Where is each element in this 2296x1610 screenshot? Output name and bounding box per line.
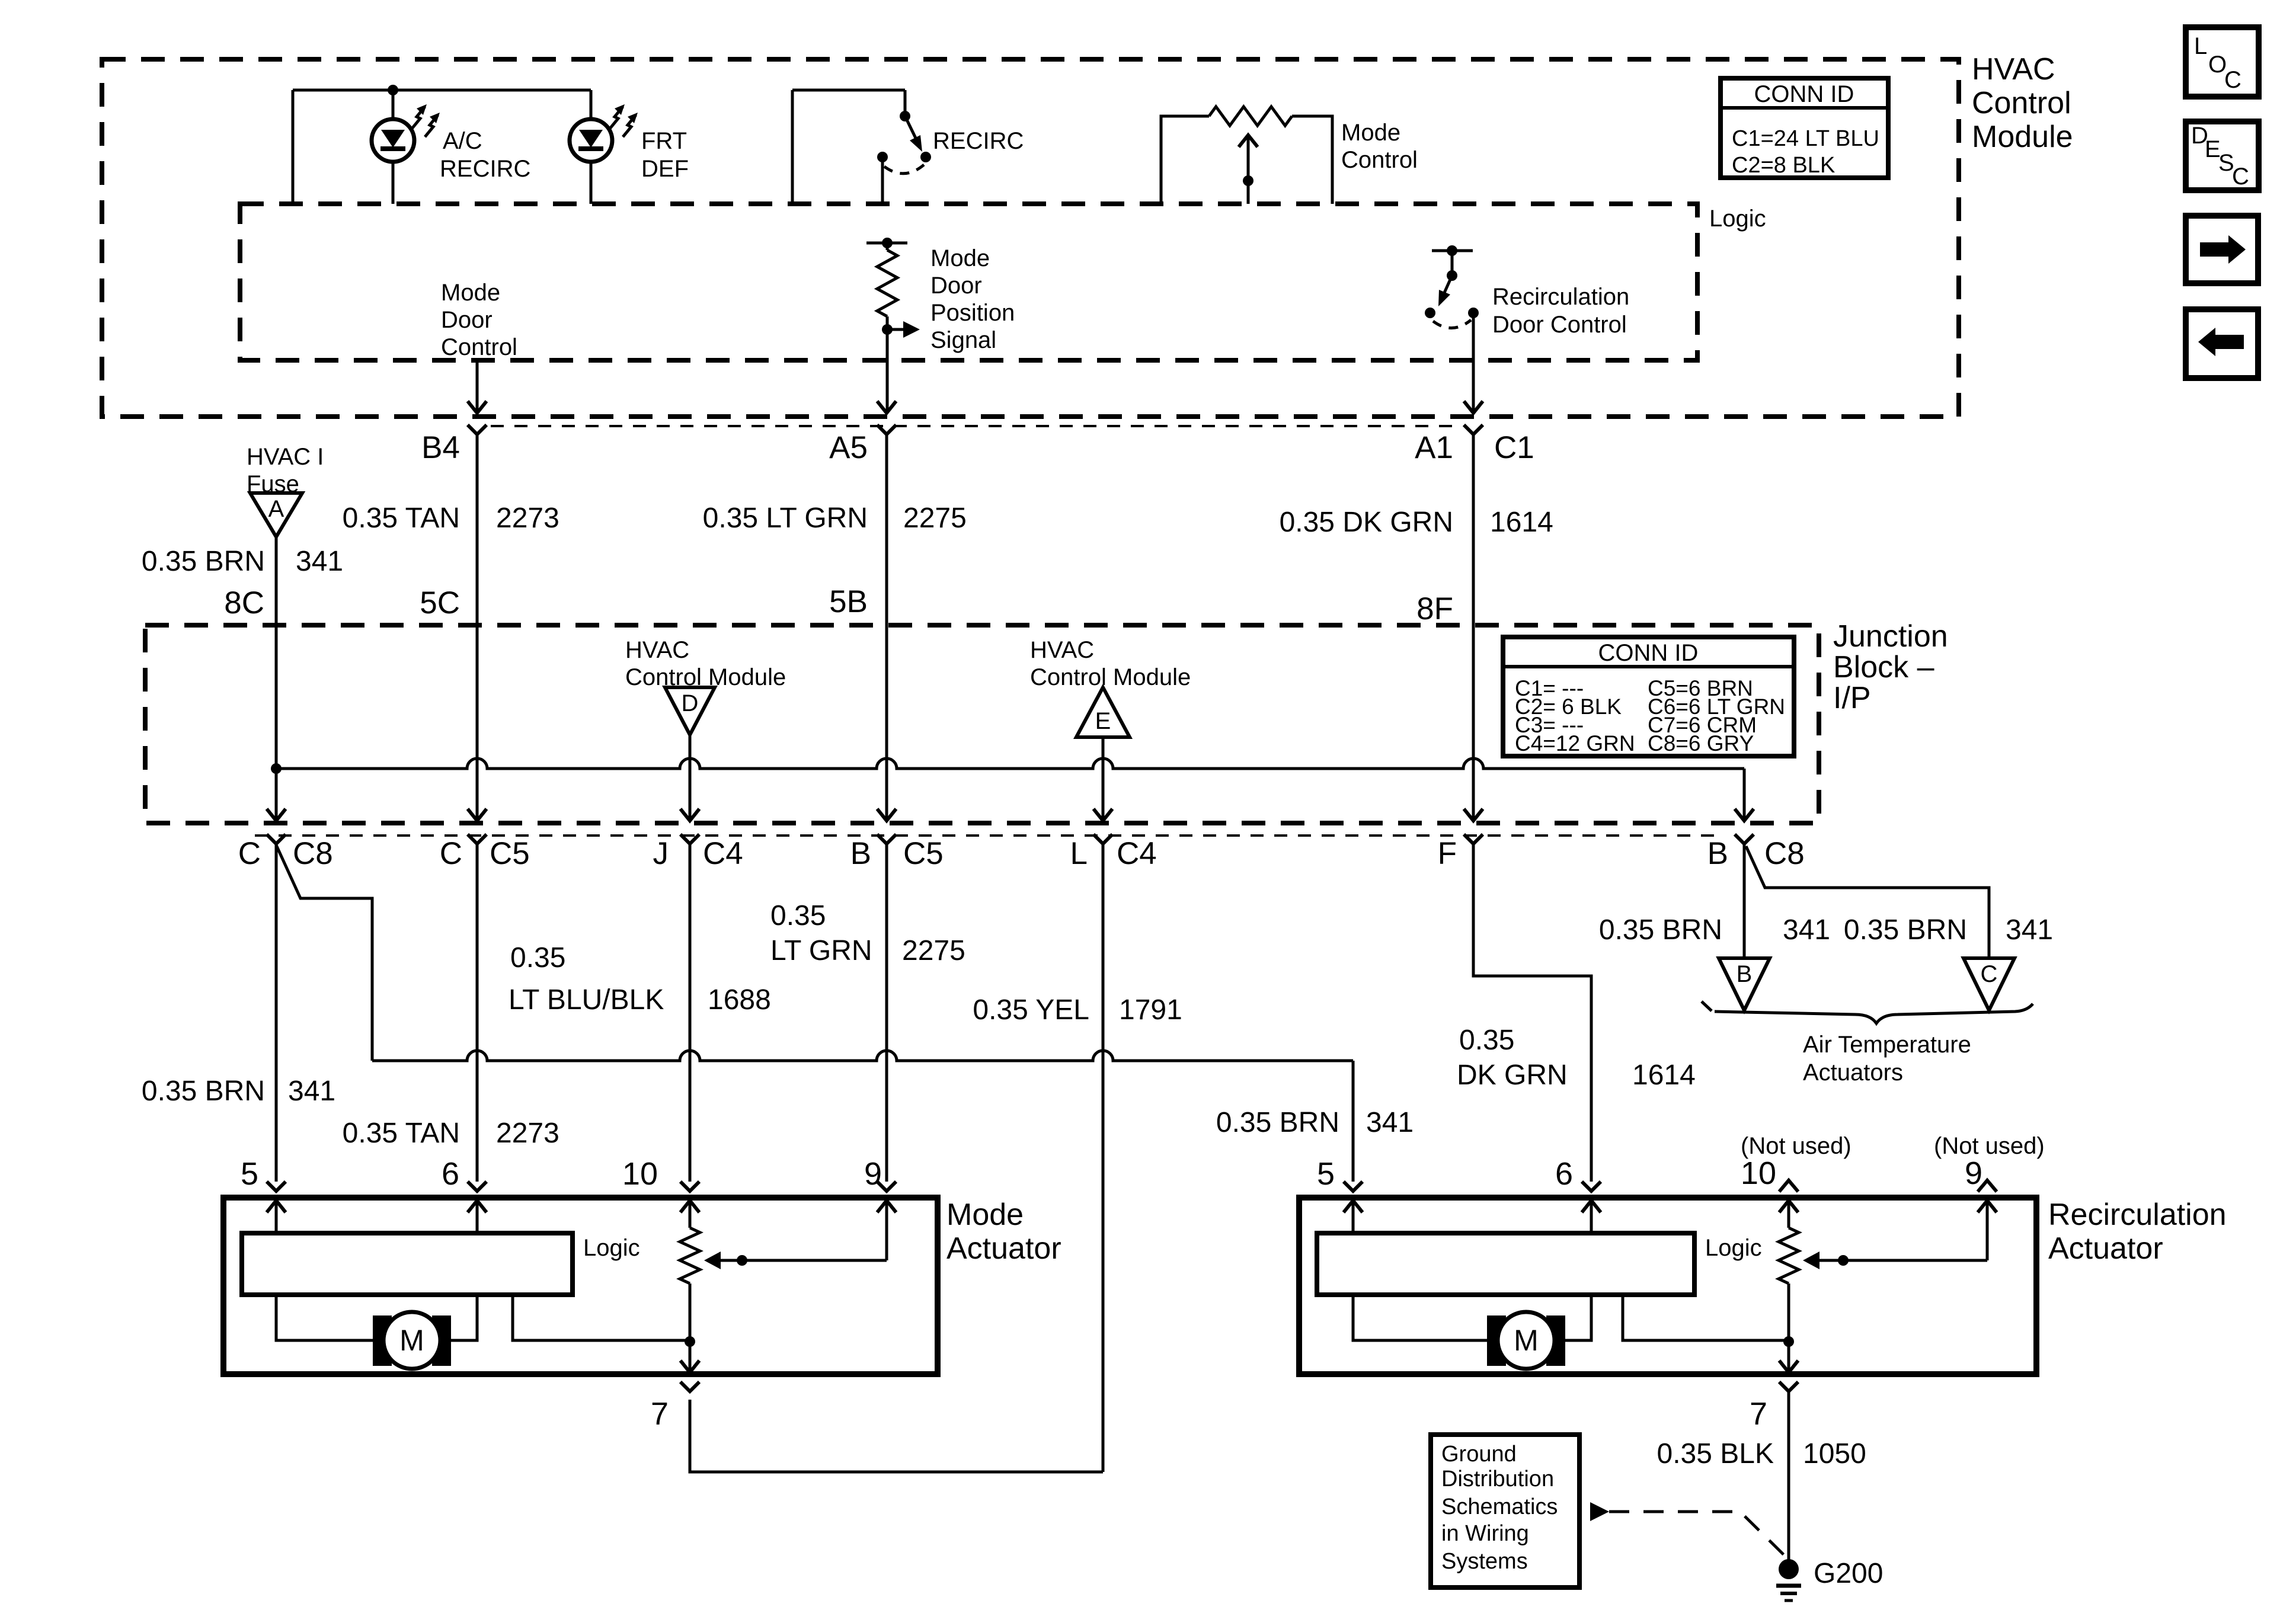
svg-text:7: 7 [1750, 1396, 1767, 1432]
svg-text:8C: 8C [224, 585, 264, 620]
svg-text:341: 341 [1366, 1107, 1414, 1138]
svg-text:Logic: Logic [583, 1235, 640, 1261]
svg-text:C1: C1 [1494, 430, 1534, 465]
svg-text:5: 5 [241, 1156, 258, 1192]
svg-text:(Not used): (Not used) [1741, 1133, 1851, 1159]
svg-text:LT GRN: LT GRN [770, 935, 872, 966]
svg-text:D: D [682, 690, 699, 716]
svg-text:1791: 1791 [1119, 994, 1182, 1026]
svg-text:G200: G200 [1814, 1558, 1883, 1589]
svg-text:C4: C4 [1117, 836, 1157, 871]
svg-text:0.35: 0.35 [770, 900, 826, 932]
svg-text:10: 10 [1741, 1156, 1776, 1191]
svg-text:0.35 BLK: 0.35 BLK [1657, 1438, 1774, 1470]
svg-text:C8=6 GRY: C8=6 GRY [1648, 731, 1754, 756]
svg-text:RECIRC: RECIRC [933, 128, 1024, 154]
svg-text:HVAC: HVAC [1972, 52, 2055, 87]
svg-text:1050: 1050 [1803, 1438, 1866, 1470]
svg-text:A/C: A/C [443, 128, 482, 154]
svg-text:L: L [1070, 836, 1088, 871]
svg-text:C8: C8 [1764, 836, 1805, 871]
svg-text:7: 7 [651, 1396, 669, 1432]
svg-text:C: C [2232, 164, 2249, 190]
svg-text:Air Temperature: Air Temperature [1803, 1032, 1971, 1058]
svg-text:C1=24 LT BLU: C1=24 LT BLU [1732, 126, 1879, 151]
svg-text:HVAC I: HVAC I [247, 444, 324, 470]
svg-text:B4: B4 [421, 430, 460, 465]
svg-text:Actuators: Actuators [1803, 1060, 1903, 1086]
svg-text:HVAC: HVAC [1030, 637, 1094, 663]
svg-text:Mode: Mode [441, 280, 500, 306]
svg-text:0.35: 0.35 [1459, 1025, 1514, 1056]
svg-text:M: M [1514, 1324, 1539, 1357]
svg-text:B: B [850, 836, 871, 871]
svg-text:in Wiring: in Wiring [1441, 1521, 1529, 1546]
svg-text:I/P: I/P [1833, 681, 1871, 715]
svg-text:C5: C5 [903, 836, 944, 871]
svg-text:1614: 1614 [1632, 1060, 1696, 1091]
svg-text:C: C [238, 836, 261, 871]
svg-text:C: C [440, 836, 462, 871]
svg-text:DK GRN: DK GRN [1457, 1060, 1568, 1091]
svg-text:2275: 2275 [902, 935, 965, 966]
svg-text:0.35 BRN: 0.35 BRN [1216, 1107, 1339, 1138]
svg-text:0.35 BRN: 0.35 BRN [1599, 914, 1722, 946]
svg-text:Mode: Mode [1341, 120, 1400, 146]
svg-text:Actuator: Actuator [946, 1231, 1061, 1266]
svg-text:1614: 1614 [1490, 507, 1553, 538]
svg-text:Mode: Mode [946, 1198, 1024, 1232]
svg-text:C: C [1981, 961, 1998, 987]
svg-text:C5: C5 [490, 836, 530, 871]
svg-text:2273: 2273 [496, 1118, 559, 1149]
svg-text:0.35 TAN: 0.35 TAN [343, 502, 460, 534]
svg-text:Ground: Ground [1441, 1442, 1517, 1467]
svg-text:Schematics: Schematics [1441, 1494, 1558, 1519]
svg-text:Systems: Systems [1441, 1549, 1528, 1574]
svg-text:B: B [1737, 961, 1753, 987]
svg-text:0.35 BRN: 0.35 BRN [142, 1076, 265, 1107]
svg-text:Control: Control [1341, 147, 1418, 173]
svg-text:1688: 1688 [708, 984, 771, 1016]
svg-text:Door Control: Door Control [1492, 312, 1627, 338]
svg-text:A1: A1 [1415, 430, 1453, 465]
svg-text:Block –: Block – [1833, 650, 1934, 684]
svg-text:5C: 5C [420, 585, 460, 620]
svg-text:8F: 8F [1416, 591, 1453, 626]
svg-text:341: 341 [288, 1076, 335, 1107]
svg-text:0.35: 0.35 [510, 942, 565, 974]
svg-text:Actuator: Actuator [2048, 1231, 2163, 1266]
svg-text:Logic: Logic [1705, 1235, 1762, 1261]
svg-text:0.35 BRN: 0.35 BRN [142, 546, 265, 577]
svg-text:DEF: DEF [641, 156, 689, 182]
svg-text:A: A [268, 496, 284, 522]
svg-text:Door: Door [441, 307, 493, 333]
svg-text:0.35 BRN: 0.35 BRN [1844, 914, 1967, 946]
svg-text:6: 6 [442, 1156, 459, 1192]
svg-text:0.35 DK GRN: 0.35 DK GRN [1280, 507, 1453, 538]
svg-text:L: L [2194, 33, 2207, 59]
svg-text:F: F [1438, 836, 1457, 871]
svg-text:2273: 2273 [496, 502, 559, 534]
svg-text:10: 10 [622, 1156, 658, 1192]
svg-text:B: B [1707, 836, 1728, 871]
svg-text:Module: Module [1972, 120, 2073, 154]
svg-text:C4=12 GRN: C4=12 GRN [1515, 731, 1635, 756]
svg-text:Control Module: Control Module [1030, 664, 1191, 690]
svg-text:E: E [1095, 708, 1111, 734]
svg-text:Logic: Logic [1709, 206, 1766, 232]
svg-text:C: C [2224, 67, 2241, 93]
svg-text:Recirculation: Recirculation [1492, 284, 1629, 310]
svg-text:CONN ID: CONN ID [1598, 640, 1699, 666]
svg-text:6: 6 [1555, 1156, 1573, 1192]
svg-text:Distribution: Distribution [1441, 1467, 1554, 1491]
svg-text:RECIRC: RECIRC [440, 156, 530, 182]
svg-text:Door: Door [930, 273, 982, 299]
svg-text:M: M [399, 1324, 424, 1357]
svg-text:FRT: FRT [641, 128, 687, 154]
svg-text:Position: Position [930, 300, 1015, 326]
svg-text:341: 341 [2006, 914, 2053, 946]
svg-text:CONN ID: CONN ID [1754, 81, 1854, 107]
svg-text:C8: C8 [293, 836, 333, 871]
svg-text:Control: Control [441, 334, 517, 360]
svg-text:Recirculation: Recirculation [2048, 1198, 2227, 1232]
svg-text:2275: 2275 [903, 502, 967, 534]
svg-text:C4: C4 [703, 836, 743, 871]
svg-text:HVAC: HVAC [625, 637, 689, 663]
svg-text:0.35 YEL: 0.35 YEL [973, 994, 1089, 1026]
svg-text:Junction: Junction [1833, 619, 1948, 654]
svg-text:9: 9 [1965, 1156, 1982, 1191]
svg-text:9: 9 [864, 1156, 882, 1192]
svg-text:Control: Control [1972, 86, 2071, 120]
svg-text:341: 341 [1783, 914, 1830, 946]
svg-text:LT BLU/BLK: LT BLU/BLK [509, 984, 664, 1016]
svg-text:5B: 5B [829, 584, 868, 619]
svg-text:5: 5 [1317, 1156, 1335, 1192]
svg-text:0.35 TAN: 0.35 TAN [343, 1118, 460, 1149]
svg-text:J: J [653, 836, 669, 871]
svg-text:A5: A5 [829, 430, 868, 465]
svg-text:C2=8 BLK: C2=8 BLK [1732, 153, 1835, 178]
svg-text:Signal: Signal [930, 327, 996, 353]
svg-text:Mode: Mode [930, 245, 990, 271]
svg-text:0.35 LT GRN: 0.35 LT GRN [703, 502, 868, 534]
svg-text:(Not used): (Not used) [1934, 1133, 2045, 1159]
svg-text:341: 341 [296, 546, 343, 577]
